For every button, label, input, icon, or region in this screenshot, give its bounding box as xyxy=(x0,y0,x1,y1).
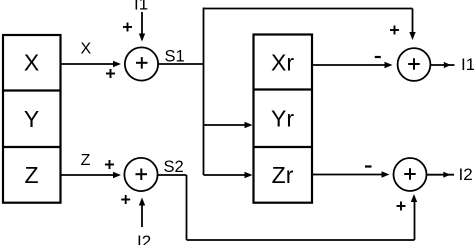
wire S1 output xyxy=(158,63,203,65)
wire X output to S1 xyxy=(61,63,114,65)
arrowhead into S2 left xyxy=(113,172,121,178)
svg-text:I2: I2 xyxy=(137,232,151,245)
svg-text:Xr: Xr xyxy=(271,49,294,75)
arrowhead into J1 top xyxy=(409,32,415,40)
svg-text:Y: Y xyxy=(24,106,39,132)
arrowhead into S1 left xyxy=(113,61,121,67)
svg-text:I1: I1 xyxy=(134,0,148,14)
svg-text:S1: S1 xyxy=(165,48,185,66)
plus inside S2 xyxy=(136,169,148,181)
summing junction J1 xyxy=(398,48,431,81)
plus sign at S2 bottom input xyxy=(121,195,130,204)
arrowhead into J2 bottom xyxy=(411,194,417,202)
arrowhead on I2 output xyxy=(443,172,450,178)
svg-text:I1: I1 xyxy=(461,55,474,74)
arrowhead into J1 left xyxy=(385,62,393,68)
wire I1 down into S1 xyxy=(141,12,143,35)
wire S2 down leg xyxy=(186,175,188,240)
svg-text:X: X xyxy=(24,50,39,76)
arrowhead on I1 output xyxy=(444,62,451,68)
plus sign at S1 top input xyxy=(123,23,132,32)
summing junction S2 xyxy=(124,158,157,191)
arrowhead into S2 bottom xyxy=(139,198,145,206)
vertical bus from S1 node xyxy=(203,8,205,176)
wire I2 up into S2 xyxy=(141,204,143,227)
wire down into J1 top xyxy=(412,9,414,34)
svg-text:Z: Z xyxy=(24,162,38,188)
top feedforward wire xyxy=(204,8,413,10)
svg-text:Zr: Zr xyxy=(272,162,294,188)
arrowhead into S1 top xyxy=(139,34,145,42)
wire up into J2 bottom xyxy=(414,201,416,240)
wire Z output to S2 xyxy=(61,174,114,176)
wire S2 output xyxy=(158,174,187,176)
wire Zr output to J2 xyxy=(313,174,384,176)
plus sign at S1 left input xyxy=(106,69,115,78)
wire Xr output to J1 xyxy=(313,64,387,66)
svg-text:S2: S2 xyxy=(164,158,184,176)
plus inside J2 xyxy=(404,168,416,180)
plus sign at J1 top input xyxy=(390,26,399,35)
plus inside S1 xyxy=(136,57,148,69)
minus sign at J1 left input xyxy=(375,56,381,58)
plus inside J1 xyxy=(408,58,420,69)
plus sign at S2 left input xyxy=(105,160,114,169)
reference model box XrYrZr xyxy=(254,35,313,203)
wire J1 output I1 xyxy=(431,64,455,66)
arrowhead into J2 left xyxy=(382,171,390,177)
svg-text:I2: I2 xyxy=(459,165,473,184)
arrowhead into Yr xyxy=(245,122,253,128)
branch wire to Yr input xyxy=(204,124,246,126)
bottom feedforward wire xyxy=(187,239,415,241)
svg-text:X: X xyxy=(80,41,91,58)
summing junction J2 xyxy=(394,158,427,191)
minus sign at J2 left input xyxy=(365,165,372,167)
svg-text:Yr: Yr xyxy=(271,106,294,132)
plus sign at J2 bottom input xyxy=(397,202,406,211)
wire J2 output I2 xyxy=(427,174,454,176)
summing junction S1 xyxy=(125,47,158,80)
state vector box XYZ xyxy=(3,35,61,203)
arrowhead into Zr xyxy=(245,172,253,178)
branch wire to Zr input xyxy=(204,174,246,176)
svg-text:Z: Z xyxy=(81,152,91,169)
